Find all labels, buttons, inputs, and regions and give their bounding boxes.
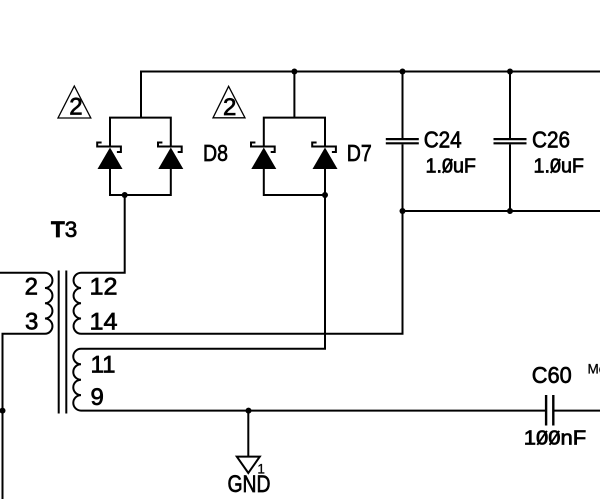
label D8 <box>203 140 228 166</box>
diode pair D8 frame top <box>110 118 171 147</box>
ground pin number 1 <box>257 461 265 476</box>
svg-text:C24: C24 <box>424 127 462 153</box>
transformer T3 secondary winding 1 <box>74 273 81 334</box>
diode pair D7 frame top <box>264 118 325 147</box>
node junction D8 anodes <box>122 192 128 198</box>
svg-text:D8: D8 <box>203 140 228 166</box>
svg-text:11: 11 <box>91 352 116 379</box>
svg-text:2: 2 <box>25 274 38 301</box>
label T3 <box>51 217 77 242</box>
svg-text:GND: GND <box>228 471 271 498</box>
capacitor C24 bottom lead <box>402 144 404 211</box>
label C60 <box>532 362 572 388</box>
svg-text:1.0uF: 1.0uF <box>426 156 477 178</box>
diode D8 right cathode <box>158 143 182 153</box>
node junction top rail C24 <box>400 69 406 75</box>
wire top rail with D8 stub <box>141 72 600 118</box>
capacitor C24 top lead <box>402 72 404 139</box>
pin number 11 <box>91 352 116 379</box>
pin number 14 <box>90 309 118 336</box>
wire D7 stub <box>293 72 295 118</box>
svg-text:3: 3 <box>65 217 78 242</box>
svg-text:2: 2 <box>69 94 82 121</box>
svg-text:Mou: Mou <box>588 361 600 376</box>
diode D8 right anode triangle <box>158 148 183 170</box>
node junction top rail D7 stub <box>291 69 297 75</box>
svg-text:C26: C26 <box>532 127 570 153</box>
label C26 <box>532 127 570 153</box>
diode pair D8 frame bottom <box>110 169 171 195</box>
transformer T3 core <box>59 271 67 414</box>
marker triangle 2 left <box>58 86 91 121</box>
diode D8 left anode triangle <box>98 148 123 170</box>
diode D7 right anode triangle <box>313 148 338 170</box>
node junction bottom rail C26 <box>507 208 513 214</box>
node junction bottom rail C24 <box>400 208 406 214</box>
ground symbol <box>237 457 260 473</box>
wire D8 anode to transformer pin 12 <box>81 195 125 273</box>
wire transformer pin 14 to capacitor bottom rail <box>81 211 403 334</box>
label GND <box>228 471 271 498</box>
wire capacitor bottom rail <box>403 210 600 212</box>
diode D8 left cathode <box>97 143 121 153</box>
transformer T3 secondary winding 2 <box>73 349 81 411</box>
capacitor C26 bottom lead <box>509 144 511 211</box>
value C24 1.0uF <box>426 156 477 178</box>
capacitor C26 top lead <box>509 72 511 139</box>
node junction bottom rail GND <box>246 408 252 414</box>
label D7 <box>347 140 372 166</box>
pin number 3 <box>25 309 38 336</box>
diode D7 right cathode <box>312 143 336 153</box>
value C60 100nF <box>524 427 587 449</box>
diode D7 left anode triangle <box>251 148 276 170</box>
label C24 <box>424 127 462 153</box>
svg-text:3: 3 <box>25 309 38 336</box>
pin number 2 <box>25 274 38 301</box>
svg-text:C60: C60 <box>532 362 572 388</box>
svg-text:D7: D7 <box>347 140 372 166</box>
pin number 12 <box>90 274 118 301</box>
wire bottom rail C60 to right edge <box>554 410 600 412</box>
svg-text:9: 9 <box>91 384 104 411</box>
pin number 9 <box>91 384 104 411</box>
text fragment Mo at right edge <box>588 361 600 376</box>
svg-text:12: 12 <box>90 274 118 301</box>
diode D7 left cathode <box>251 143 275 153</box>
capacitor C26 plates <box>494 139 527 143</box>
svg-text:14: 14 <box>90 309 118 336</box>
transformer T3 primary winding with pin 2 and pin 3 leads <box>0 273 52 499</box>
node junction top rail C26 <box>507 69 513 75</box>
capacitor C60 plates <box>546 395 553 426</box>
wire GND stub <box>247 411 249 457</box>
svg-text:2: 2 <box>223 94 236 121</box>
node junction left wire <box>0 408 6 414</box>
value C26 1.0uF <box>534 156 585 178</box>
wire bottom rail pin 9 to C60 <box>81 410 545 412</box>
wire D7 anode to transformer pin 11 <box>81 195 325 349</box>
diode pair D7 frame bottom <box>264 169 325 195</box>
svg-text:T: T <box>51 217 65 242</box>
capacitor C24 plates <box>386 139 419 143</box>
svg-text:1.0uF: 1.0uF <box>534 156 585 178</box>
node junction D7 anodes <box>322 192 328 198</box>
marker triangle 2 right <box>213 86 245 121</box>
